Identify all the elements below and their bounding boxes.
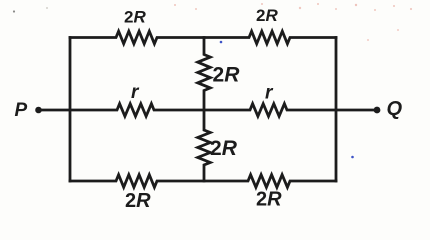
svg-text:Q: Q <box>387 98 403 120</box>
svg-text:P: P <box>15 100 28 121</box>
svg-text:2R: 2R <box>213 64 241 87</box>
svg-text:2R: 2R <box>256 189 282 211</box>
svg-text:2R: 2R <box>124 8 146 27</box>
svg-text:2R: 2R <box>256 6 278 25</box>
svg-text:2R: 2R <box>210 137 238 160</box>
svg-text:2R: 2R <box>125 190 151 212</box>
